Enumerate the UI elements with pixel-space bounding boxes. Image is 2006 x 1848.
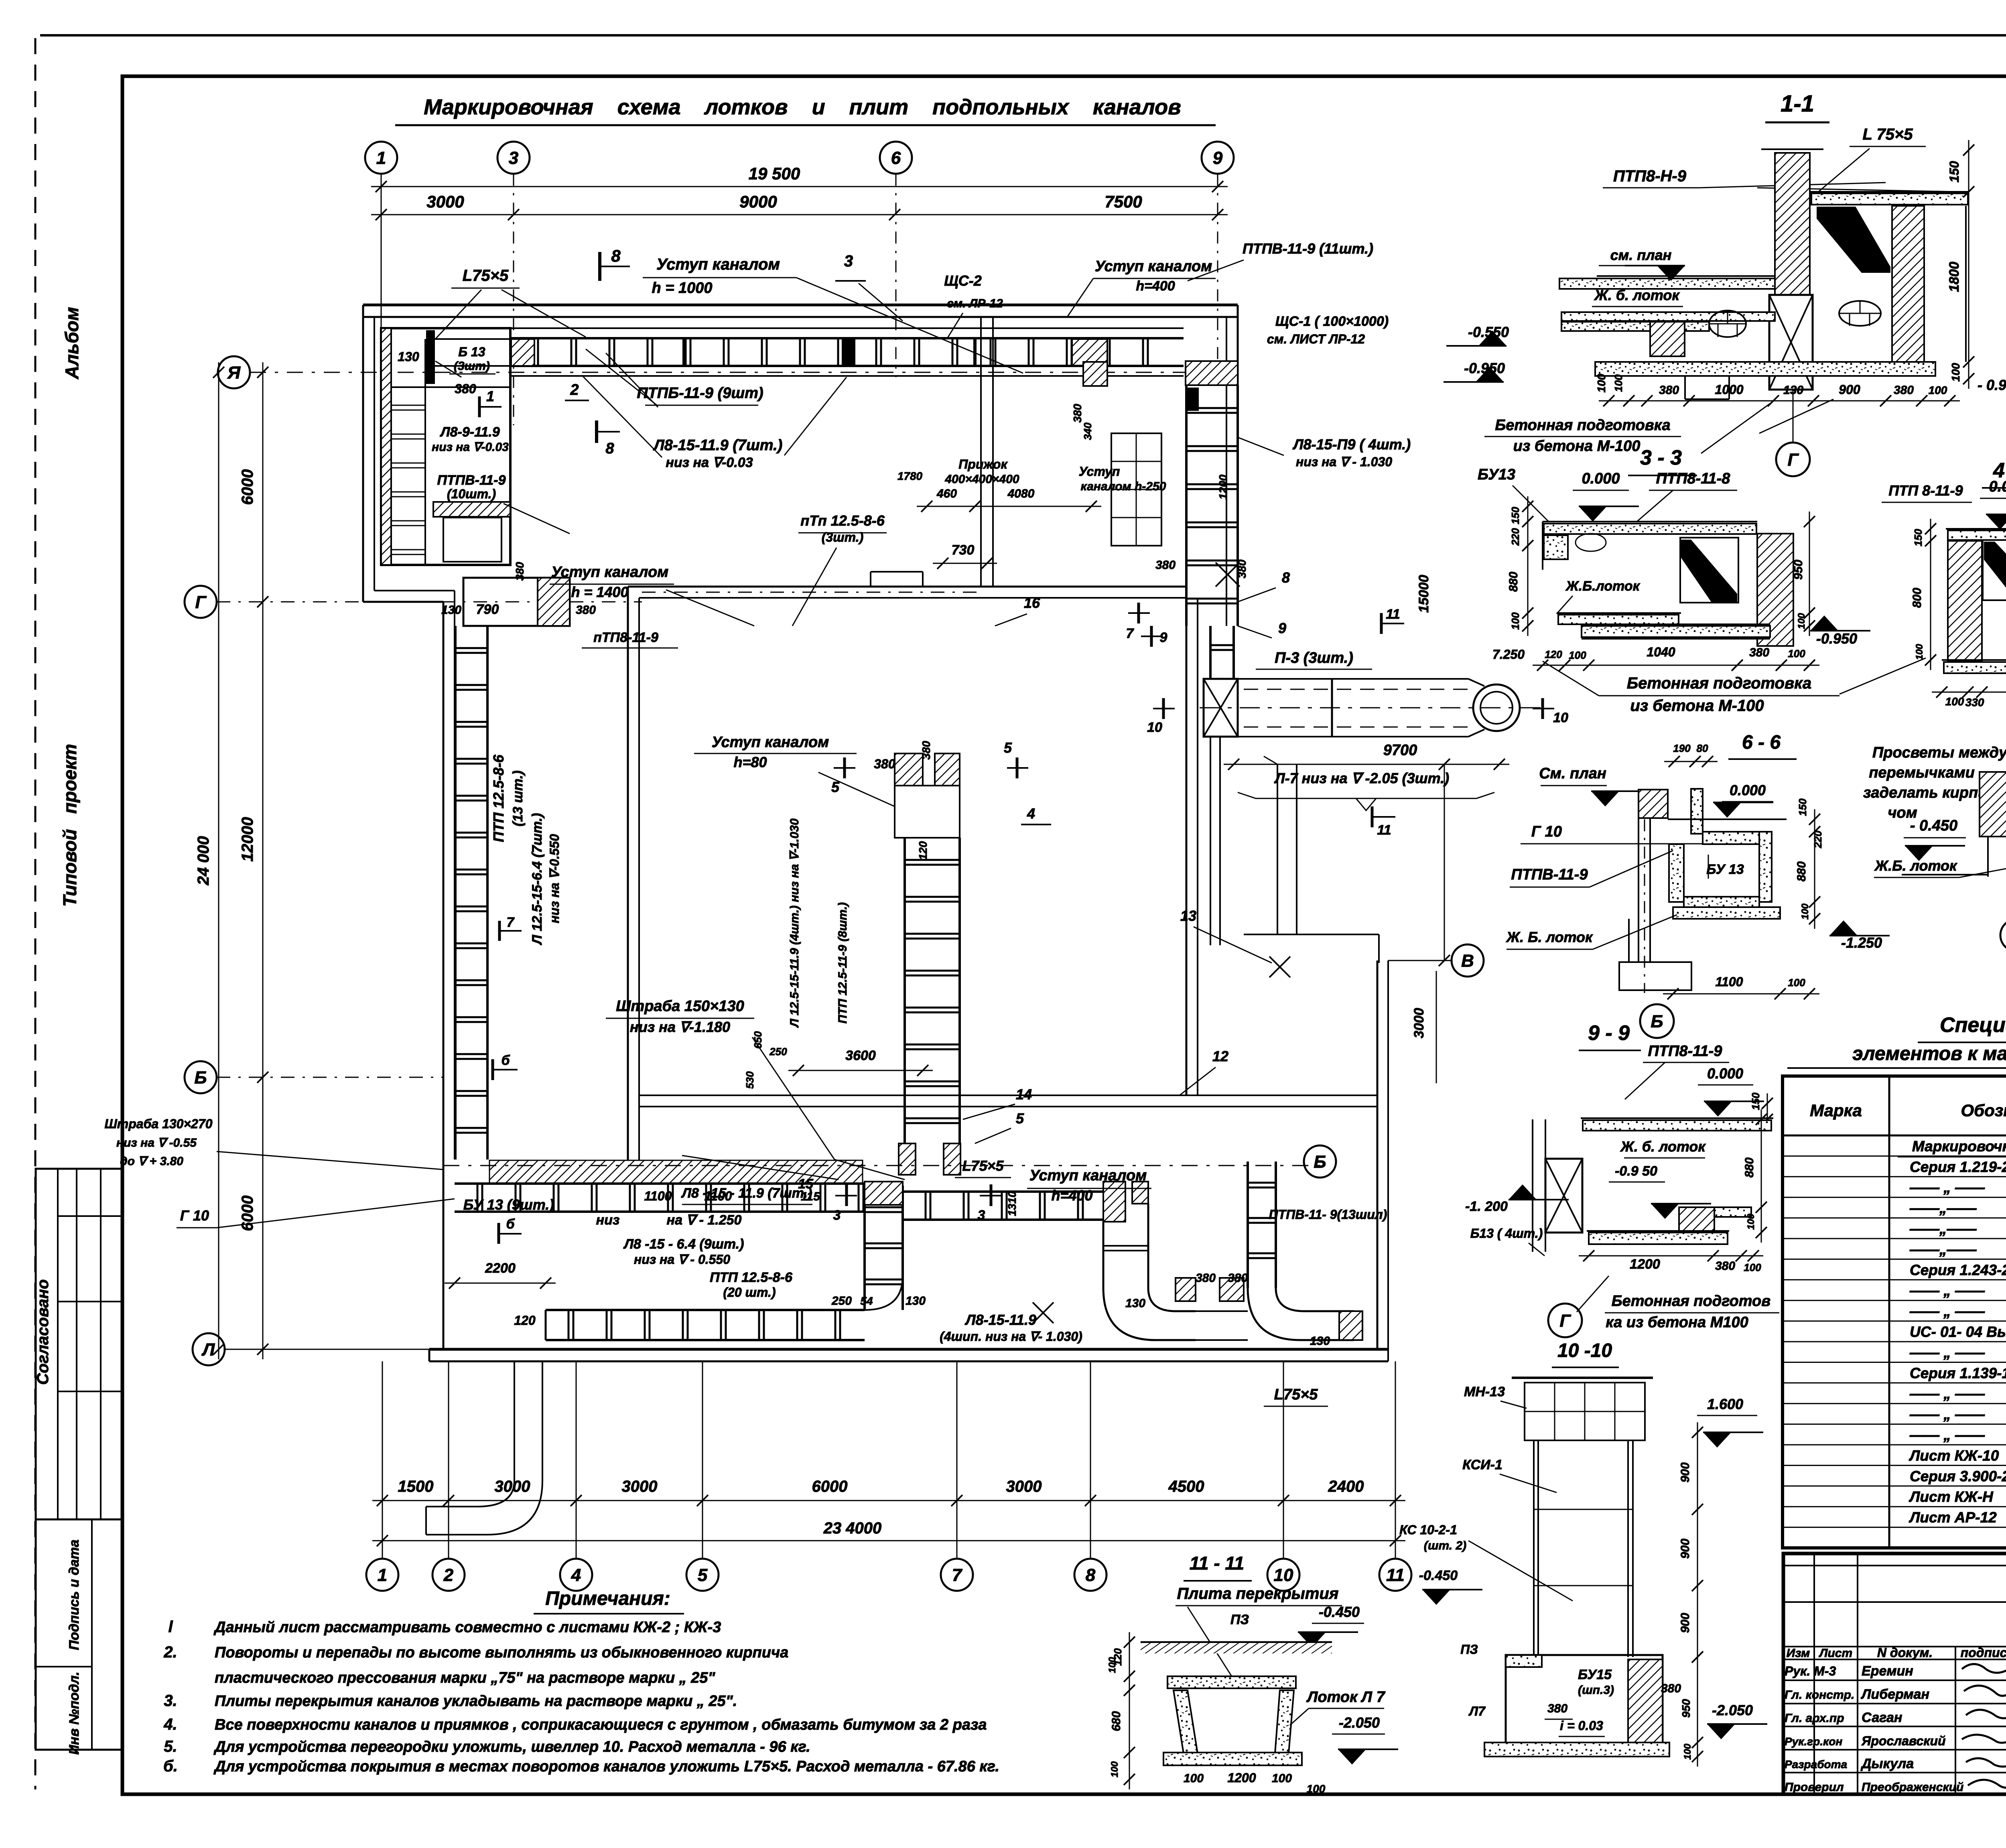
axis bubble A left <box>218 356 250 388</box>
s66 trough bottom <box>1684 897 1759 908</box>
svg-text:h=80: h=80 <box>733 754 767 770</box>
svg-text:(20 шт.): (20 шт.) <box>723 1285 776 1300</box>
s66 bottom dim <box>1663 993 1819 995</box>
s66 foundation <box>1619 962 1691 990</box>
P3 end ring <box>1473 684 1520 731</box>
svg-text:380: 380 <box>1155 558 1176 572</box>
P3 vertical channel below <box>1210 737 1211 945</box>
brace L7 <box>1238 792 1494 810</box>
svg-text:низ на ∇ - 0.550: низ на ∇ - 0.550 <box>634 1252 730 1267</box>
svg-text:Ж. б. лоток: Ж. б. лоток <box>1594 287 1680 303</box>
s99 bottom dim <box>1579 1255 1763 1257</box>
top-left block left wall hatch <box>381 328 391 565</box>
svg-text:9: 9 <box>1160 630 1167 645</box>
axis bubble 1 top <box>365 142 397 174</box>
svg-text:Все поверхности каналов и п: Все поверхности каналов и приямков , соп… <box>215 1716 987 1733</box>
top outer wall <box>363 304 1238 307</box>
s66 wall strip <box>1691 789 1703 834</box>
spec table row line 1 <box>1783 1156 2006 1157</box>
bottom total dim line <box>372 1540 1405 1541</box>
top total dim line <box>371 186 1228 187</box>
svg-text:100: 100 <box>1914 644 1925 660</box>
svg-text:Данный лист рассматрив: Данный лист рассматривать совместно с ли… <box>213 1619 721 1636</box>
svg-text:——„——: ——„—— <box>1909 1241 1977 1257</box>
right loop channel down <box>1247 1162 1249 1288</box>
axis line B stub <box>217 1077 443 1078</box>
svg-text:100: 100 <box>1595 374 1608 392</box>
svg-text:2.: 2. <box>163 1643 177 1661</box>
svg-text:ПТП 12.5-8-6: ПТП 12.5-8-6 <box>490 754 507 842</box>
svg-text:1-1: 1-1 <box>1781 91 1814 117</box>
spec table row line 9 <box>1783 1320 2006 1322</box>
s66 pier hatch <box>1639 790 1668 818</box>
svg-text:880: 880 <box>1743 1158 1756 1178</box>
axis line 5 bottom stub <box>702 1361 703 1559</box>
svg-text:Изм: Изм <box>1787 1647 1810 1660</box>
svg-text:Г 10: Г 10 <box>1531 823 1562 840</box>
right wall upper segment <box>1226 317 1227 626</box>
s1111 left dims <box>1129 1632 1130 1789</box>
left strip lower box <box>36 1519 122 1750</box>
svg-text:100: 100 <box>1109 1761 1120 1777</box>
svg-text:i = 0.03: i = 0.03 <box>1560 1718 1603 1733</box>
mid channel bottom hook right <box>944 1143 960 1175</box>
axis bubble 8 bottom <box>1074 1559 1107 1591</box>
bottom band ladder <box>455 1182 865 1185</box>
svg-text:5.: 5. <box>164 1738 177 1755</box>
svg-text:(3шт.): (3шт.) <box>822 530 863 544</box>
s11 bottom dim <box>1599 400 1960 402</box>
svg-text:80: 80 <box>1697 742 1708 754</box>
svg-text:Уступ каналом: Уступ каналом <box>1095 258 1212 275</box>
wall at V axis <box>1377 961 1379 1095</box>
svg-text:9: 9 <box>1213 148 1223 168</box>
hall X mark <box>1269 956 1290 977</box>
svg-text:Для устройства покрытия: Для устройства покрытия в местах поворот… <box>213 1758 999 1775</box>
svg-text:-1.250: -1.250 <box>1841 934 1882 951</box>
svg-text:—— „ ——: —— „ —— <box>1909 1282 1985 1299</box>
top band black right <box>1187 388 1199 411</box>
svg-text:12: 12 <box>1212 1048 1228 1064</box>
lower spur left cap <box>545 1310 547 1340</box>
svg-text:1800: 1800 <box>1947 262 1962 292</box>
s33 slab <box>1543 521 1757 522</box>
bottom band cut 3 right <box>990 1184 993 1206</box>
lower spur band <box>546 1309 865 1311</box>
loop corner hatch a <box>865 1182 903 1205</box>
svg-text:——„——: ——„—— <box>1909 1200 1977 1216</box>
axis line 3 top stub <box>513 174 514 425</box>
svg-text:ПТП 12.5-8-6: ПТП 12.5-8-6 <box>710 1270 793 1285</box>
svg-text:каналом h-250: каналом h-250 <box>1081 480 1166 493</box>
svg-text:380: 380 <box>920 741 932 760</box>
svg-text:—— „ ——: —— „ —— <box>1909 1303 1985 1320</box>
axis bubble B left <box>185 1061 217 1093</box>
loop X mark <box>1033 1302 1054 1323</box>
svg-text:900: 900 <box>1679 1613 1692 1633</box>
s99 right slab <box>1714 1207 1751 1217</box>
P3 vertical channel above <box>1209 626 1212 679</box>
svg-text:100: 100 <box>1612 374 1624 392</box>
svg-text:Лист КЖ-Н: Лист КЖ-Н <box>1909 1489 1994 1505</box>
svg-text:пТп 12.5-8-6: пТп 12.5-8-6 <box>800 512 885 529</box>
svg-text:2: 2 <box>443 1565 454 1585</box>
svg-text:380: 380 <box>1661 1682 1681 1695</box>
svg-text:низ: низ <box>596 1212 620 1228</box>
svg-text:Л8-15-П9 ( 4шт.): Л8-15-П9 ( 4шт.) <box>1292 436 1411 453</box>
s66 right dims <box>1814 809 1815 929</box>
spec table row line 19 <box>1783 1527 2006 1528</box>
hall right wall <box>1186 587 1188 1095</box>
svg-text:h = 1000: h = 1000 <box>652 280 712 296</box>
svg-text:1040: 1040 <box>1647 645 1675 659</box>
s77 2 bubble <box>2000 919 2006 951</box>
bottom wall left cap <box>428 1349 430 1361</box>
s11 brick oval a <box>1709 311 1746 337</box>
main title underline <box>395 124 1216 126</box>
hall bottom wall <box>639 1095 1377 1096</box>
svg-text:Прижок: Прижок <box>958 457 1008 471</box>
svg-text:UC- 01- 04 Вып. 2: UC- 01- 04 Вып. 2 <box>1910 1324 2006 1340</box>
svg-text:h=400: h=400 <box>1051 1187 1092 1204</box>
svg-text:15000: 15000 <box>1416 575 1431 613</box>
svg-text:Спецификация сборных желез: Спецификация сборных железобетонных <box>1940 1013 2006 1037</box>
svg-text:1000: 1000 <box>1715 382 1743 397</box>
svg-text:низ на ∇-1.180: низ на ∇-1.180 <box>630 1019 730 1035</box>
svg-text:Л 12.5-15-6.4 (7шт.): Л 12.5-15-6.4 (7шт.) <box>530 813 545 945</box>
svg-text:L75×5: L75×5 <box>962 1158 1004 1174</box>
svg-text:380: 380 <box>514 562 526 581</box>
svg-text:14: 14 <box>1016 1086 1032 1103</box>
svg-text:3000: 3000 <box>1411 1008 1427 1038</box>
svg-text:330: 330 <box>1965 696 1984 709</box>
svg-text:h=400: h=400 <box>1136 278 1175 294</box>
tb header row2 <box>1783 1659 2006 1660</box>
svg-text:Б: Б <box>1314 1152 1326 1172</box>
bottom band cut b <box>497 1223 500 1244</box>
svg-text:10: 10 <box>1147 720 1162 735</box>
svg-text:пластического прессования: пластического прессования марки „75" на … <box>215 1669 715 1686</box>
left ladder cut mark b <box>491 1059 494 1080</box>
svg-text:0.000: 0.000 <box>1730 782 1766 798</box>
svg-text:100: 100 <box>1509 612 1521 630</box>
svg-text:до ∇ + 3.80: до ∇ + 3.80 <box>120 1155 183 1168</box>
svg-text:460: 460 <box>936 487 957 500</box>
svg-text:130: 130 <box>906 1294 926 1308</box>
hall cut 5 top <box>843 757 846 778</box>
right top hatch small <box>1083 362 1107 386</box>
mid channel head box <box>895 786 960 838</box>
bottom band axis dash <box>443 1165 1324 1166</box>
axis bubble 9 top <box>1202 142 1234 174</box>
spec table row line 17 <box>1783 1485 2006 1487</box>
svg-text:0.000: 0.000 <box>1707 1065 1743 1082</box>
s66 trough right wall <box>1759 832 1772 902</box>
axis line 8 bottom stub <box>1090 1361 1091 1559</box>
svg-text:Гл. констр.: Гл. констр. <box>1785 1688 1854 1702</box>
leader L8-15-119 a <box>582 375 662 457</box>
loop bottom corner <box>865 1276 903 1310</box>
svg-text:100: 100 <box>1184 1772 1204 1785</box>
axis line 1 top stub <box>381 174 382 333</box>
s11 left ceiling line <box>1597 275 1775 277</box>
svg-text:Дыкула: Дыкула <box>1860 1756 1914 1771</box>
svg-text:120: 120 <box>1545 648 1562 660</box>
top-left block inner vertical <box>424 339 426 565</box>
svg-text:см. ЛИСТ ЛР-12: см. ЛИСТ ЛР-12 <box>1267 332 1365 346</box>
s11 right dim line <box>1968 140 1969 389</box>
s1111 bottom slab <box>1163 1753 1302 1765</box>
svg-text:ПТП8-11-8: ПТП8-11-8 <box>1656 470 1731 487</box>
right loop corner hatch <box>1220 1278 1244 1301</box>
svg-text:из бетона М-100: из бетона М-100 <box>1513 438 1641 455</box>
svg-text:380: 380 <box>1071 404 1084 422</box>
mid channel bottom hook left <box>899 1143 916 1175</box>
svg-text:ЩС-1 ( 100×1000): ЩС-1 ( 100×1000) <box>1275 314 1389 329</box>
P3 channel dash top <box>1244 689 1468 690</box>
svg-text:Л8 - 15 - 11.9 (7шт.): Л8 - 15 - 11.9 (7шт.) <box>681 1186 812 1201</box>
leader PTPV10 <box>504 504 570 534</box>
svg-text:100: 100 <box>1929 384 1947 396</box>
s1010 leg ties <box>1534 1509 1633 1510</box>
svg-text:Г: Г <box>1559 1311 1571 1330</box>
svg-text:730: 730 <box>952 542 975 558</box>
svg-text:Маркировочная схема лотк: Маркировочная схема лотков и плит подпол… <box>424 95 1181 119</box>
sheet outer border top <box>40 34 2006 37</box>
svg-text:КС 10-2-1: КС 10-2-1 <box>1399 1523 1457 1537</box>
bottom segment dim line <box>372 1500 1405 1501</box>
svg-text:19 500: 19 500 <box>749 164 800 183</box>
s77 floor line <box>1902 874 1988 875</box>
svg-text:МН-13: МН-13 <box>1464 1384 1505 1399</box>
left strip row line 3 <box>58 1391 122 1392</box>
right top corner hatch <box>1186 361 1238 385</box>
svg-text:Серия 1.139-1. Вып.1: Серия 1.139-1. Вып.1 <box>1910 1365 2006 1381</box>
svg-text:Серия 1.243-2: Серия 1.243-2 <box>1910 1262 2006 1278</box>
svg-text:950: 950 <box>1792 560 1805 580</box>
s44 base <box>1942 659 2006 661</box>
axis bubble 7 bottom <box>941 1559 973 1591</box>
svg-text:Б: Б <box>1651 1011 1663 1031</box>
axis bubble G left <box>185 586 217 618</box>
s99 xbox <box>1545 1159 1582 1233</box>
svg-text:900: 900 <box>1679 1462 1692 1482</box>
svg-text:2200: 2200 <box>485 1261 516 1276</box>
svg-text:ПТПВ-11-9 (11шт.): ПТПВ-11-9 (11шт.) <box>1243 240 1373 257</box>
svg-text:Преображенский: Преображенский <box>1862 1781 1963 1794</box>
top-left block ladder rungs <box>391 405 425 406</box>
svg-text:1780: 1780 <box>897 470 923 482</box>
svg-text:6: 6 <box>891 148 901 168</box>
svg-text:1500: 1500 <box>398 1478 434 1495</box>
s44 black wedge <box>1984 542 2006 598</box>
svg-text:11: 11 <box>1386 607 1400 622</box>
svg-text:Ж. б. лоток: Ж. б. лоток <box>1620 1138 1706 1155</box>
svg-text:880: 880 <box>1795 861 1808 881</box>
loop down channel <box>863 1186 866 1310</box>
axis bubble 2 bottom <box>432 1559 465 1591</box>
svg-text:Б 13: Б 13 <box>458 345 485 359</box>
left strip row line 2 <box>58 1301 122 1302</box>
s11 right slab speckle <box>1811 193 1968 205</box>
s1010 grid <box>1525 1383 1645 1440</box>
svg-text:790: 790 <box>476 602 499 617</box>
s33 left dims <box>1527 496 1529 636</box>
s11 base speckle <box>1595 362 1935 376</box>
svg-text:11: 11 <box>1377 822 1391 838</box>
upper interior wall <box>980 317 982 587</box>
svg-text:Уступ каналом: Уступ каналом <box>551 564 669 581</box>
svg-text:—— „ ——: —— „ —— <box>1909 1179 1985 1196</box>
s11 right wall line <box>1965 206 1967 362</box>
left strip table outer <box>36 1169 122 1519</box>
s11 base notch <box>1684 376 1686 399</box>
s77 pier below <box>1987 837 1989 877</box>
svg-text:Разработа: Разработа <box>1785 1758 1847 1771</box>
s99 G bubble <box>1548 1304 1582 1337</box>
svg-text:340: 340 <box>1082 422 1094 440</box>
spec table row line 6 <box>1783 1259 2006 1260</box>
axis bubble 1 bottom <box>366 1559 398 1591</box>
svg-text:3: 3 <box>844 252 853 270</box>
svg-text:2: 2 <box>570 382 579 398</box>
left strip table col 3 <box>100 1169 102 1519</box>
s11 left band2 <box>1561 312 1775 321</box>
svg-text:100: 100 <box>1307 1783 1326 1795</box>
s11 central pier xbrace <box>1769 295 1813 390</box>
svg-text:3000: 3000 <box>622 1478 658 1495</box>
left total dim line <box>218 362 219 1359</box>
svg-text:См. план: См. план <box>1539 765 1606 782</box>
svg-text:530: 530 <box>744 1071 756 1089</box>
s1010 pit hatch <box>1628 1659 1663 1745</box>
svg-text:4.: 4. <box>163 1716 177 1733</box>
axis line 6 top stub <box>895 174 897 377</box>
svg-text:БУ15: БУ15 <box>1578 1667 1612 1682</box>
tb upper row 1 <box>1783 1565 2006 1566</box>
svg-text:-2.050: -2.050 <box>1339 1714 1380 1731</box>
svg-text:пТП8-11-9: пТП8-11-9 <box>593 630 658 645</box>
s1010 base <box>1484 1742 1669 1757</box>
svg-text:Альбом: Альбом <box>61 307 82 380</box>
svg-text:900: 900 <box>1679 1539 1692 1559</box>
svg-text:9700: 9700 <box>1383 742 1417 759</box>
top channel hatch right end <box>1072 339 1107 366</box>
svg-text:Уступ каналом: Уступ каналом <box>656 256 780 273</box>
svg-text:Плита перекрытия: Плита перекрытия <box>1177 1585 1339 1602</box>
loop right leg <box>1102 1222 1105 1288</box>
s44 left dims <box>1930 519 1931 670</box>
s33 right dims <box>1809 512 1810 636</box>
s1010 dim chain <box>1697 1422 1698 1667</box>
s11 left band3 <box>1561 322 1709 331</box>
L7 vertical stub <box>1277 764 1278 934</box>
svg-text:Еремин: Еремин <box>1862 1663 1913 1679</box>
axis line 9 top stub <box>1217 174 1218 363</box>
left strip row line 1 <box>58 1215 122 1217</box>
svg-text:БУ 13: БУ 13 <box>1706 862 1744 877</box>
svg-text:9000: 9000 <box>739 192 777 211</box>
left wall lower <box>443 602 445 1349</box>
axis bubble 5 bottom <box>686 1559 719 1591</box>
bottom outer wall <box>429 1348 1388 1351</box>
svg-text:низ на ∇-0.03: низ на ∇-0.03 <box>666 455 753 470</box>
svg-text:Серия 1.219-2: Серия 1.219-2 <box>1910 1159 2006 1175</box>
bottom band hatch strip <box>489 1160 863 1184</box>
svg-text:Для устройства перегород: Для устройства перегородки уложить, швел… <box>213 1738 810 1755</box>
axis line 1 bottom stub <box>382 1361 383 1559</box>
svg-text:В: В <box>1461 951 1474 971</box>
svg-text:Обозначение: Обозначение <box>1961 1101 2006 1120</box>
svg-text:на ∇ - 1.250: на ∇ - 1.250 <box>667 1212 742 1228</box>
svg-text:100: 100 <box>1744 1261 1761 1273</box>
svg-text:Г: Г <box>195 592 207 612</box>
svg-text:1200: 1200 <box>1217 474 1229 500</box>
axis bubble 6 top <box>880 142 912 174</box>
top-left block inner wall <box>390 328 392 565</box>
leader ustup1400 <box>666 590 754 626</box>
svg-text:8: 8 <box>1282 569 1290 586</box>
svg-text:—— „ ——: —— „ —— <box>1909 1406 1985 1423</box>
svg-text:-0.950: -0.950 <box>1816 630 1857 647</box>
right top corner band <box>1185 385 1188 626</box>
s11 pier cap <box>1761 148 1823 150</box>
spec table row line 14 <box>1783 1424 2006 1425</box>
s99 left wall <box>1532 1119 1533 1252</box>
svg-text:130: 130 <box>441 603 461 617</box>
svg-text:ка из бетона М100: ка из бетона М100 <box>1606 1314 1748 1331</box>
s66 pier wall lines <box>1638 818 1639 963</box>
svg-text:380: 380 <box>1749 646 1769 659</box>
s1111 right wall <box>1275 1690 1294 1753</box>
P3 channel top line <box>1238 678 1468 680</box>
svg-text:БУ 13 (9шт.): БУ 13 (9шт.) <box>463 1196 554 1213</box>
svg-text:9 - 9: 9 - 9 <box>1588 1021 1630 1045</box>
svg-text:Л8-15-11.9: Л8-15-11.9 <box>964 1312 1036 1328</box>
axis bubble 4 bottom <box>560 1559 592 1591</box>
svg-text:-0.9 50: -0.9 50 <box>1615 1164 1657 1179</box>
svg-text:Ж.Б.лоток: Ж.Б.лоток <box>1565 579 1641 594</box>
s99 slab <box>1581 1117 1773 1119</box>
s99 hatch block <box>1679 1207 1714 1233</box>
top band left hatch <box>511 339 534 366</box>
svg-text:3: 3 <box>509 148 518 168</box>
top segment dim line <box>371 214 1228 215</box>
svg-text:Л-7 низ на ∇ -2.05 (3шт.): Л-7 низ на ∇ -2.05 (3шт.) <box>1274 770 1449 786</box>
svg-text:1310: 1310 <box>1006 1191 1018 1216</box>
svg-text:Л: Л <box>201 1340 215 1359</box>
s66 slab line <box>1668 818 1787 820</box>
bottom-left spur stub <box>514 1361 515 1480</box>
svg-text:2400: 2400 <box>1328 1478 1364 1495</box>
axis bubble 11 bottom <box>1379 1559 1411 1591</box>
s33 left wall <box>1542 522 1543 570</box>
P3 cut 11 top <box>1380 613 1383 634</box>
svg-text:Г: Г <box>1787 450 1799 469</box>
svg-text:1: 1 <box>378 1565 387 1585</box>
left strip table col 2 <box>76 1169 77 1519</box>
svg-text:ПТПВ-11-9: ПТПВ-11-9 <box>437 473 506 488</box>
svg-text:Лист КЖ-10: Лист КЖ-10 <box>1909 1447 1999 1464</box>
svg-text:Л8-9-11.9: Л8-9-11.9 <box>439 424 500 440</box>
top-left block cut mark 1 <box>478 396 481 417</box>
svg-text:Лоток Л 7: Лоток Л 7 <box>1306 1689 1385 1706</box>
svg-text:l: l <box>168 1618 173 1636</box>
tb col a <box>1813 1554 1815 1794</box>
top-left block outline <box>381 328 510 565</box>
svg-text:100: 100 <box>1107 1657 1118 1673</box>
s33 trough floor <box>1557 612 1681 614</box>
